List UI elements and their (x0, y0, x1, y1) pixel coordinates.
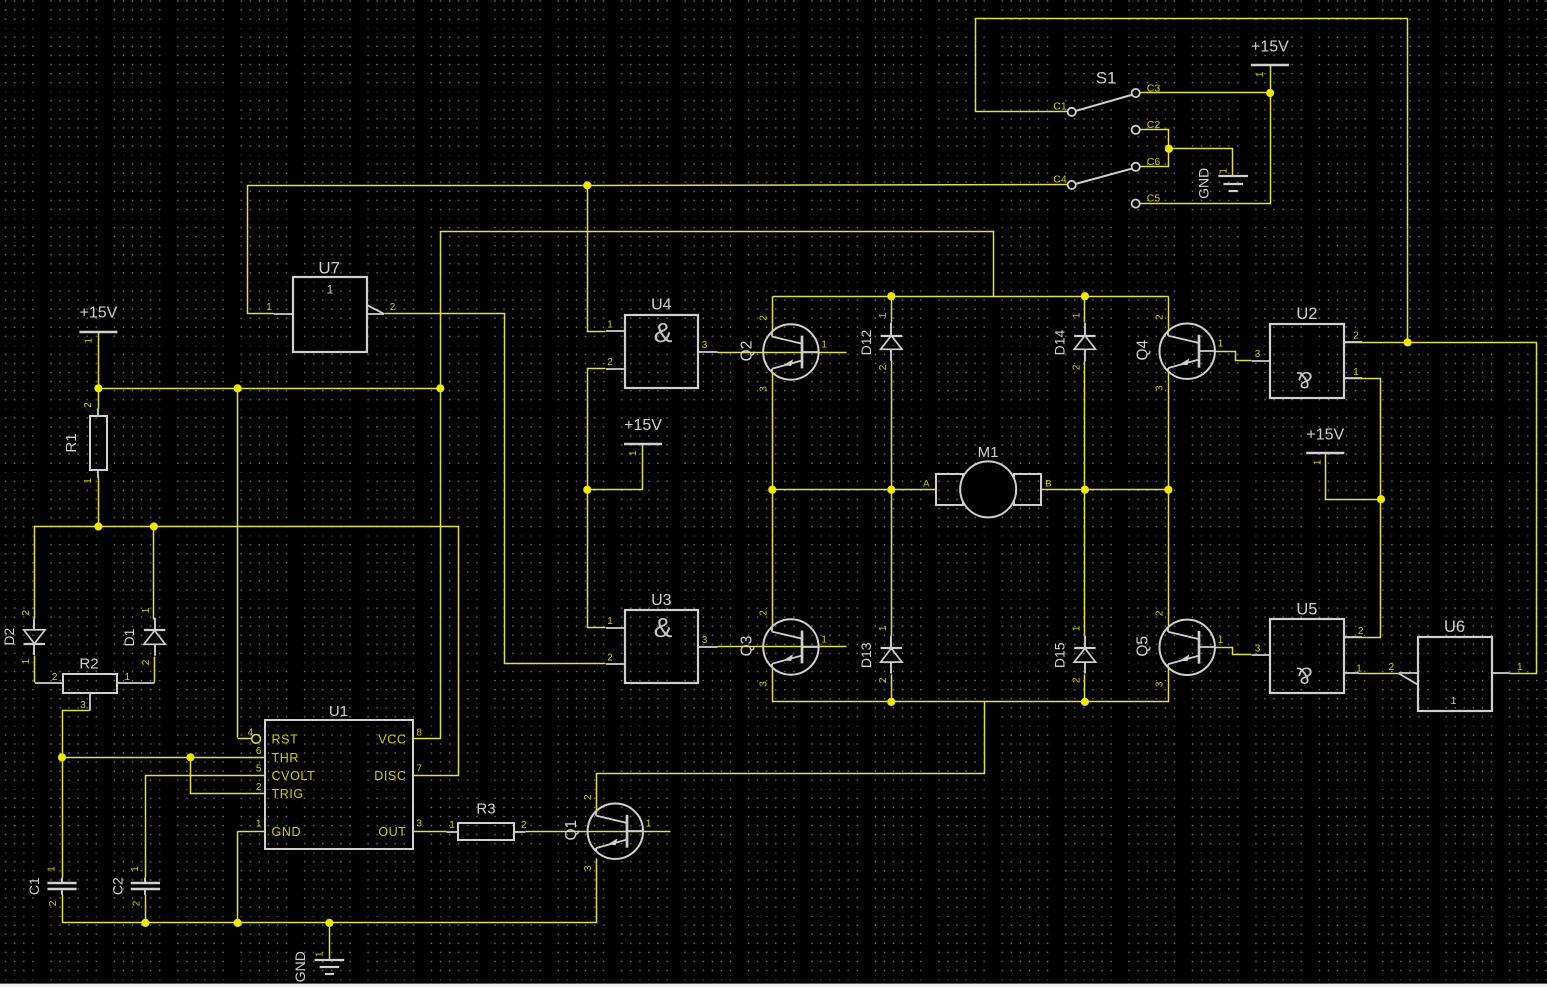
svg-text:+15V: +15V (1306, 426, 1344, 443)
svg-text:U1: U1 (329, 703, 348, 720)
transistor Q1 (563, 794, 652, 871)
gate U5 (1252, 601, 1364, 694)
wire +15V TL to rail (98, 332, 100, 389)
wire Q4 base to U2 pin3 (1215, 352, 1252, 361)
svg-text:D2: D2 (1, 627, 17, 645)
svg-text:2: 2 (878, 677, 889, 683)
svg-text:2: 2 (390, 302, 396, 313)
wire top rail to Q4 collector (1168, 297, 1170, 331)
junction D14/D15/node B (1081, 486, 1089, 494)
wire node B to D15 (1084, 490, 1086, 636)
wire ground rail to GND symbol (329, 923, 331, 960)
svg-text:3: 3 (80, 700, 86, 711)
svg-text:3: 3 (758, 681, 769, 687)
svg-text:1: 1 (125, 672, 131, 683)
power +15V top right (1251, 38, 1289, 77)
svg-text:U5: U5 (1296, 601, 1317, 619)
wire down to C1 (62, 758, 64, 878)
junction D12/D13/node A (887, 486, 895, 494)
diode D13 (858, 625, 902, 683)
svg-text:S1: S1 (1096, 69, 1117, 88)
wire R2 pin3 down (63, 711, 90, 758)
svg-text:2: 2 (21, 610, 32, 616)
junction D13/bottom rail (887, 698, 895, 706)
wire D12 to node A (891, 361, 893, 490)
svg-text:OUT: OUT (378, 825, 406, 839)
svg-text:2: 2 (1389, 662, 1395, 673)
AND gate U4 (606, 297, 718, 389)
svg-text:1: 1 (628, 450, 639, 456)
svg-text:Q4: Q4 (1135, 339, 1152, 360)
svg-text:&: & (654, 317, 673, 348)
svg-text:Q5: Q5 (1135, 636, 1152, 657)
svg-text:2: 2 (758, 315, 769, 321)
wire Q1 collector to bottom rail (597, 702, 985, 811)
gate U2 (1252, 305, 1362, 398)
svg-text:RST: RST (272, 733, 299, 747)
svg-text:U4: U4 (651, 297, 672, 314)
wire top rail to Q2 collector (772, 297, 774, 332)
resistor R3 (447, 800, 527, 840)
diode D12 (858, 312, 902, 370)
svg-text:2: 2 (1071, 677, 1082, 683)
wire Q1 base stub (639, 831, 671, 833)
transistor Q4 (1135, 314, 1224, 391)
transistor Q3 (738, 610, 827, 687)
wire S1-C2 to gnd node (1141, 130, 1169, 149)
svg-text:U3: U3 (651, 592, 672, 609)
wire S1-C1 to U2 pin2 node (976, 19, 1408, 343)
svg-text:2: 2 (1155, 314, 1166, 320)
wire +15V right to node (1326, 454, 1381, 500)
transistor Q2 (738, 315, 827, 392)
svg-text:GND: GND (292, 951, 308, 982)
junction rail/VCC riser (436, 384, 444, 392)
switch S1 (1053, 69, 1160, 208)
svg-text:D14: D14 (1051, 329, 1067, 355)
svg-text:3: 3 (416, 819, 422, 830)
svg-text:3: 3 (758, 386, 769, 392)
wire U2 pin2 to U6 pin1 (1345, 343, 1537, 674)
svg-text:Q2: Q2 (738, 341, 755, 362)
svg-text:A: A (923, 479, 930, 490)
capacitor C2 (109, 866, 160, 907)
svg-text:R1: R1 (63, 433, 80, 452)
svg-text:1: 1 (327, 283, 334, 297)
wire U3 pin3 to Q3 base (718, 646, 847, 648)
svg-text:+15V: +15V (79, 305, 117, 322)
junction U4.2/U3.1/+15V (583, 486, 591, 494)
svg-text:1: 1 (821, 635, 827, 646)
power +15V right (1306, 426, 1344, 465)
ground bottom (292, 951, 344, 982)
svg-text:2: 2 (52, 672, 58, 683)
wire +15V mid to node (588, 445, 643, 490)
diode D2 (1, 610, 45, 665)
wire +15V rail (99, 388, 441, 390)
junction D12/top rail (887, 292, 895, 300)
junction Q2/Q3/node A (768, 486, 776, 494)
junction +15V/R1 (94, 384, 102, 392)
junction U2 pin2 node (1404, 338, 1412, 346)
inverter U7 (266, 259, 396, 353)
svg-text:GND: GND (1196, 168, 1212, 199)
svg-text:R3: R3 (476, 800, 495, 817)
svg-text:2: 2 (141, 659, 152, 665)
wire to U4 pin1 (588, 186, 606, 332)
svg-text:2: 2 (256, 782, 262, 793)
svg-text:+15V: +15V (1251, 38, 1289, 55)
svg-text:C5: C5 (1147, 193, 1161, 205)
transistor Q5 (1135, 610, 1224, 687)
wire gnd node to GND symbol (1169, 149, 1233, 176)
wire U1 GND stub (238, 831, 265, 833)
svg-text:2: 2 (83, 402, 94, 408)
wire U1 OUT to R3 (413, 831, 447, 833)
wire U5 pin1 to U6 pin2 (1359, 673, 1399, 675)
svg-text:2: 2 (1155, 610, 1166, 616)
svg-text:1: 1 (1255, 71, 1266, 77)
diode D15 (1051, 625, 1095, 683)
svg-text:8: 8 (416, 727, 422, 738)
junction D14/top rail (1081, 292, 1089, 300)
wire U4 pin2 to U3 pin1 (588, 369, 606, 628)
wire rail to R1 pin2 (98, 389, 100, 409)
wire top rail to D14 (1084, 297, 1086, 323)
wire D13 to bottom rail (891, 675, 893, 702)
wire H-bridge top rail (773, 296, 1169, 298)
svg-text:1: 1 (1218, 635, 1224, 646)
junction +15V / C3 / C5 (1266, 89, 1274, 97)
svg-text:3: 3 (702, 340, 708, 351)
svg-text:1: 1 (1451, 695, 1457, 707)
wire D2 to R2 pin2 (34, 656, 36, 683)
svg-text:GND: GND (272, 825, 302, 839)
wire Q5 base to U5 pin3 (1215, 648, 1252, 655)
resistor R1 (63, 402, 107, 484)
svg-text:1: 1 (1218, 339, 1224, 350)
svg-text:1: 1 (1356, 664, 1362, 675)
svg-text:C6: C6 (1147, 156, 1161, 168)
wire D1 to R2 pin1 (154, 657, 156, 683)
svg-text:1: 1 (646, 819, 652, 830)
wire motor to node B (1042, 489, 1169, 491)
bottom screen edge strip (0, 984, 1547, 987)
svg-text:1: 1 (607, 616, 613, 627)
svg-text:2: 2 (758, 610, 769, 616)
svg-text:&: & (654, 612, 673, 643)
svg-text:TRIG: TRIG (272, 787, 304, 801)
svg-text:2: 2 (607, 653, 613, 664)
resistor R2 (35, 656, 155, 712)
svg-text:3: 3 (1155, 385, 1166, 391)
svg-text:3: 3 (1255, 644, 1261, 655)
AND gate U3 (606, 592, 718, 683)
svg-text:C4: C4 (1053, 174, 1067, 186)
svg-text:2: 2 (1358, 626, 1364, 637)
wire rail to D1 pin1 (153, 527, 155, 620)
wire THR to TRIG (191, 758, 265, 794)
svg-text:U6: U6 (1444, 618, 1465, 636)
wire U1 DISC to D1/R1/D2 rail (35, 527, 459, 776)
wire S1-C6 to gnd node (1141, 149, 1169, 167)
junction C2/ground rail (141, 919, 149, 927)
wire RST bubble stub (238, 738, 252, 740)
buffer U6 (1389, 618, 1523, 711)
wire U7 pin2 to U3 pin2 (385, 314, 606, 664)
wire D15 to bottom rail (1084, 675, 1086, 702)
svg-text:C3: C3 (1147, 83, 1161, 95)
svg-text:C1: C1 (1053, 101, 1067, 113)
wire C2 to ground rail (145, 895, 147, 923)
svg-text:VCC: VCC (378, 733, 406, 747)
svg-text:D1: D1 (121, 628, 137, 646)
wire node A to D13 (891, 490, 893, 636)
svg-text:5: 5 (256, 763, 262, 774)
svg-text:1: 1 (315, 951, 326, 957)
svg-text:2: 2 (521, 820, 527, 831)
svg-text:DISC: DISC (374, 769, 406, 783)
wire bottom ground rail to Q1 emitter (63, 859, 597, 923)
wire R1 pin1 to rail (98, 478, 100, 527)
svg-text:1: 1 (21, 658, 32, 664)
svg-text:1: 1 (1353, 367, 1359, 378)
svg-text:2: 2 (1353, 331, 1359, 342)
svg-text:2: 2 (607, 357, 613, 368)
svg-text:2: 2 (48, 900, 59, 906)
svg-text:2: 2 (583, 794, 594, 800)
junction D15/bottom rail (1081, 698, 1089, 706)
svg-text:&: & (1296, 662, 1312, 689)
svg-text:1: 1 (1071, 312, 1082, 318)
svg-text:M1: M1 (978, 444, 999, 461)
svg-text:1: 1 (449, 820, 455, 831)
svg-text:3: 3 (1255, 349, 1261, 360)
svg-text:1: 1 (1517, 662, 1523, 673)
svg-text:1: 1 (83, 337, 94, 343)
wire Q2 emitter / Q3 collector (772, 373, 774, 627)
wire top rail to D12 (891, 297, 893, 323)
diode D1 (121, 607, 165, 665)
svg-text:1: 1 (878, 312, 889, 318)
svg-text:1: 1 (47, 866, 58, 872)
wire +15V to S1-C3 (1141, 66, 1271, 93)
wire Q4 emitter / Q5 collector (1168, 372, 1170, 627)
svg-text:+15V: +15V (624, 417, 662, 434)
svg-text:1: 1 (878, 625, 889, 631)
svg-text:C2: C2 (109, 877, 125, 895)
diode D14 (1051, 312, 1095, 370)
power +15V left (79, 305, 117, 344)
svg-text:1: 1 (821, 340, 827, 351)
wire node A to motor (773, 489, 937, 491)
svg-text:2: 2 (131, 900, 142, 906)
power +15V middle (624, 417, 662, 456)
svg-text:U2: U2 (1296, 305, 1317, 323)
svg-text:Q3: Q3 (738, 636, 755, 657)
junction U1 GND/ground rail (234, 919, 242, 927)
wire +15V node to S1-C5 (1141, 93, 1271, 204)
wire CVOLT to C2 (146, 776, 265, 878)
junction C2/C6 (1165, 145, 1173, 153)
junction +15V/U2.1/U5.2 (1377, 495, 1385, 503)
svg-text:&: & (1296, 366, 1312, 393)
svg-text:Q1: Q1 (563, 820, 580, 841)
svg-text:1: 1 (83, 478, 94, 484)
wire D14 to node B (1084, 361, 1086, 490)
svg-text:2: 2 (878, 364, 889, 370)
svg-text:D12: D12 (858, 329, 874, 355)
svg-text:THR: THR (272, 751, 300, 765)
svg-text:D13: D13 (858, 642, 874, 668)
wire U1 VCC riser to top rail (413, 232, 994, 739)
svg-text:6: 6 (256, 746, 262, 757)
wire U4 pin3 to Q2 base (718, 352, 847, 354)
svg-text:1: 1 (607, 320, 613, 331)
wire rail to U1 RST (237, 389, 239, 738)
op-amp U1 555 timer (248, 703, 423, 849)
svg-text:D15: D15 (1051, 642, 1067, 668)
svg-text:R2: R2 (79, 656, 98, 673)
svg-text:4: 4 (248, 727, 254, 738)
svg-text:2: 2 (1071, 364, 1082, 370)
junction D1/rail (150, 522, 158, 530)
wire U1 GND down (237, 832, 239, 923)
svg-text:1: 1 (1071, 625, 1082, 631)
svg-text:3: 3 (583, 865, 594, 871)
wire H-bridge bottom rail (773, 668, 1169, 702)
svg-text:3: 3 (1155, 681, 1166, 687)
ground at S1 (1196, 168, 1248, 199)
svg-text:1: 1 (1312, 459, 1323, 465)
svg-text:7: 7 (416, 763, 422, 774)
svg-text:3: 3 (702, 635, 708, 646)
svg-text:1: 1 (256, 819, 262, 830)
junction C4 line / U4 pin1 (583, 181, 591, 189)
motor M1 (923, 444, 1051, 517)
svg-text:1: 1 (141, 607, 152, 613)
junction R2.3/THR/C1 (58, 753, 66, 761)
svg-text:C2: C2 (1147, 119, 1161, 131)
capacitor C1 (26, 866, 77, 907)
wire THR line (63, 757, 265, 759)
junction rail/RST (234, 384, 242, 392)
junction Q4/Q5/node B (1164, 486, 1172, 494)
svg-text:B: B (1045, 479, 1051, 490)
junction R1/rail (94, 522, 102, 530)
svg-text:1: 1 (266, 302, 272, 313)
junction THR/TRIG (186, 753, 194, 761)
wire S1-C4 to U7 pin1 (248, 185, 1068, 314)
svg-text:U7: U7 (318, 259, 340, 278)
svg-text:CVOLT: CVOLT (272, 769, 316, 783)
junction GND symbol/ground rail (325, 919, 333, 927)
wire R3 to Q1 base (526, 831, 639, 833)
svg-text:C1: C1 (26, 877, 42, 895)
svg-text:1: 1 (1218, 168, 1229, 174)
wire U2 pin1 to U5 pin2 (1345, 379, 1381, 638)
svg-text:1: 1 (130, 866, 141, 872)
